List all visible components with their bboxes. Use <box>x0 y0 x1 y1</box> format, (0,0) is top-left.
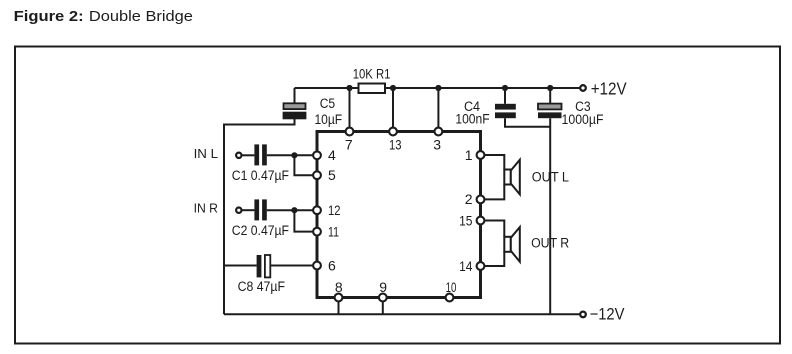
wire node to pin 11 <box>294 210 317 231</box>
svg-text:OUT L: OUT L <box>532 169 569 184</box>
svg-text:3: 3 <box>433 137 441 153</box>
node R1 right / pin 13 <box>390 85 396 91</box>
wire pin 14 to speaker R <box>485 252 505 266</box>
node C2 out <box>291 207 297 213</box>
capacitor C8 <box>257 255 271 277</box>
svg-text:10: 10 <box>446 279 457 295</box>
speaker OUT R <box>504 227 520 262</box>
wire C3 top <box>549 88 551 104</box>
svg-text:C5: C5 <box>320 96 335 111</box>
wire C4 bottom <box>505 118 550 127</box>
pin 3 <box>435 128 443 136</box>
pin 13 <box>389 128 397 136</box>
svg-text:6: 6 <box>328 257 336 273</box>
pin 15 <box>477 217 485 225</box>
wire bottom rail -12V <box>224 313 580 315</box>
node R1 left / pin 7 <box>346 85 352 91</box>
svg-text:IN L: IN L <box>194 147 218 161</box>
svg-text:2: 2 <box>465 191 473 207</box>
svg-text:10µF: 10µF <box>314 112 342 127</box>
terminal IN R <box>236 208 241 213</box>
wire pin 8 to rail <box>338 302 340 315</box>
pin 11 <box>313 228 321 236</box>
svg-text:+12V: +12V <box>591 78 627 98</box>
wire pin 1 to speaker L <box>485 155 505 170</box>
svg-text:5: 5 <box>328 167 336 183</box>
svg-text:C8 47µF: C8 47µF <box>238 279 285 294</box>
svg-text:C2 0.47µF: C2 0.47µF <box>232 223 289 238</box>
svg-text:8: 8 <box>335 279 343 295</box>
svg-text:4: 4 <box>328 147 336 163</box>
svg-text:−12V: −12V <box>590 305 625 323</box>
capacitor C4 <box>495 104 516 118</box>
svg-text:1000µF: 1000µF <box>562 112 604 127</box>
node C1 out <box>291 152 297 158</box>
wire pin 13 <box>392 88 394 132</box>
capacitor C3 <box>538 104 562 119</box>
pin 2 <box>477 196 485 204</box>
pin 8 <box>335 294 343 302</box>
wire pin 3 <box>437 88 439 132</box>
svg-text:11: 11 <box>328 223 339 239</box>
svg-text:13: 13 <box>389 137 402 153</box>
node C4 top <box>502 85 508 91</box>
svg-text:7: 7 <box>345 137 353 153</box>
svg-text:9: 9 <box>379 279 387 295</box>
svg-text:Double Bridge: Double Bridge <box>89 8 193 25</box>
capacitor C5 <box>284 103 306 118</box>
pin 10 <box>446 294 454 302</box>
wire top rail +12V <box>295 87 580 89</box>
svg-text:C1 0.47µF: C1 0.47µF <box>232 168 289 183</box>
pin 14 <box>477 262 485 270</box>
terminal -12V <box>580 312 586 318</box>
wire C3 bottom to -12V rail <box>549 118 551 314</box>
wire C5 top <box>294 88 296 104</box>
svg-text:Figure 2:: Figure 2: <box>14 8 84 25</box>
svg-text:10K R1: 10K R1 <box>353 67 391 82</box>
wire pin 2 to speaker L <box>485 185 505 200</box>
pin 1 <box>477 151 485 159</box>
svg-text:IN R: IN R <box>194 202 218 216</box>
wire IN R to C2 <box>242 209 254 211</box>
speaker OUT L <box>504 160 520 195</box>
svg-text:1: 1 <box>465 147 473 163</box>
pin 6 <box>313 262 321 270</box>
svg-text:14: 14 <box>459 258 473 274</box>
wire C8 to pin 6 <box>270 265 317 267</box>
wire node to pin 5 <box>294 155 317 175</box>
wire pin 7 <box>349 88 351 132</box>
wire C2 to pin 12 <box>267 209 317 211</box>
terminal +12V <box>580 85 586 91</box>
svg-text:100nF: 100nF <box>455 112 489 127</box>
resistor R1 <box>359 84 386 94</box>
pin 5 <box>313 171 321 179</box>
wire pin 15 to speaker R <box>485 221 505 237</box>
wire bus to C8 <box>224 265 257 267</box>
wire C1 to pin 4 <box>267 154 317 156</box>
svg-text:12: 12 <box>328 202 341 218</box>
wire C4 top <box>504 88 506 104</box>
terminal IN L <box>236 153 241 158</box>
svg-text:OUT R: OUT R <box>531 236 569 251</box>
node pin 3 <box>435 85 441 91</box>
wire pin 9 to rail <box>382 302 384 315</box>
capacitor C2 <box>254 199 266 220</box>
svg-text:15: 15 <box>459 212 473 228</box>
pin 7 <box>346 128 354 136</box>
wire C5 bottom to left bus <box>224 118 295 314</box>
wire IN L to C1 <box>242 154 254 156</box>
pin 9 <box>379 294 387 302</box>
pin 4 <box>313 151 321 159</box>
node C3 top <box>547 85 553 91</box>
IC U1 body <box>317 132 481 298</box>
capacitor C1 <box>254 144 266 165</box>
pin 12 <box>313 206 321 214</box>
